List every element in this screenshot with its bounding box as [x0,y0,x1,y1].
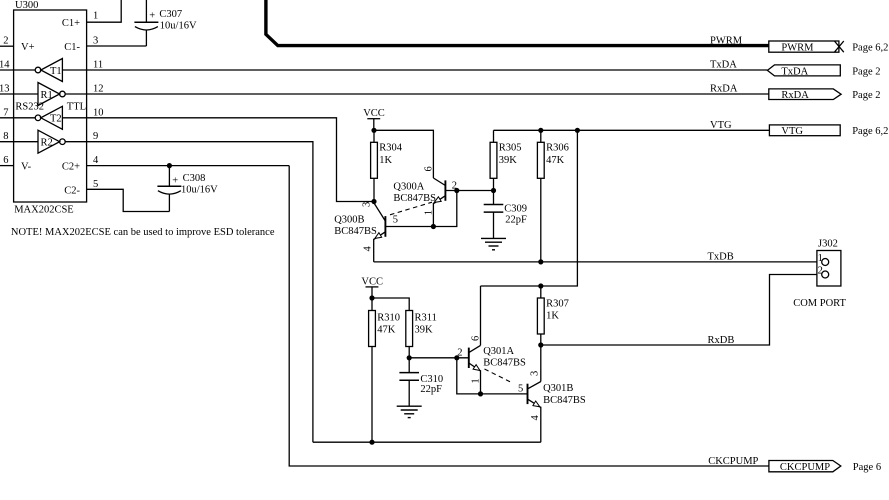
svg-text:10: 10 [93,107,104,118]
svg-text:C1+: C1+ [62,18,80,29]
ground C310 [397,406,422,417]
svg-text:7: 7 [3,107,8,118]
resistor R307 [537,286,544,345]
wire VCC2 to R311 [372,298,409,311]
power VCC symbol 2 [361,276,383,298]
svg-text:47K: 47K [377,325,396,336]
svg-text:PWRM: PWRM [781,42,814,53]
svg-text:VTG: VTG [710,120,732,131]
wire pin2 V+ [0,45,14,47]
offpage connector PWRM [769,41,844,53]
wire pin1 C1+ [87,0,122,22]
svg-text:Page 2: Page 2 [852,67,880,78]
svg-text:11: 11 [93,60,103,71]
svg-text:Q300A: Q300A [393,182,424,193]
svg-text:T1: T1 [50,66,62,77]
svg-text:4: 4 [530,415,541,421]
wire pin9 R2 out [65,142,313,443]
svg-text:Q301A: Q301A [483,346,514,357]
svg-text:1: 1 [424,210,435,215]
svg-text:R311: R311 [415,313,437,324]
svg-text:C2+: C2+ [62,162,80,173]
junction R306 top [538,128,543,133]
svg-text:2: 2 [3,36,8,47]
svg-text:R306: R306 [546,143,569,154]
svg-text:13: 13 [0,84,10,95]
wire pin5 C2- [87,189,170,211]
wire pin8 R2 in [0,141,38,143]
svg-text:1: 1 [93,11,98,22]
svg-text:MAX202CSE: MAX202CSE [14,205,74,216]
wire RxDB [541,275,822,346]
wire C2+ to CKCPUMP [289,166,769,466]
transistor Q301A [469,286,481,394]
svg-text:6: 6 [3,155,8,166]
svg-text:3: 3 [93,36,98,47]
svg-text:14: 14 [0,60,10,71]
svg-text:RxDA: RxDA [710,84,738,95]
capacitor C308 [157,166,181,212]
transistor Q301B [528,345,541,442]
junction base tap Q301A [454,355,459,360]
svg-text:6: 6 [471,336,482,341]
junction C308 top [167,163,172,168]
junction VCC2 rail [369,295,374,300]
svg-text:PWRM: PWRM [710,35,743,46]
svg-text:10u/16V: 10u/16V [181,185,218,196]
wire base tap down Q301 [457,358,527,394]
buffer R2 triangle [38,130,60,153]
wire VTG [494,129,770,131]
svg-text:39K: 39K [415,325,434,336]
junction R307 bottom RxDB [538,342,543,347]
svg-text:TxDB: TxDB [708,252,734,263]
wire Q300A base to R305 [446,190,494,192]
svg-text:22pF: 22pF [420,384,442,395]
resistor R306 [537,130,544,262]
svg-text:3: 3 [529,371,540,376]
svg-text:V-: V- [21,162,32,173]
svg-text:R310: R310 [377,313,400,324]
buffer R1 triangle [38,83,60,106]
svg-text:1: 1 [471,378,482,383]
svg-text:COM PORT: COM PORT [793,298,846,309]
IC U300 MAX202CSE body [14,10,87,202]
svg-text:3: 3 [361,202,372,207]
svg-text:6: 6 [424,166,435,171]
svg-text:BC847BS: BC847BS [334,226,377,237]
junction Q300A emitter [431,224,436,229]
transistor Q300B [374,203,386,262]
capacitor C307 [134,22,158,46]
wire pin10 to Q300B collector [62,118,374,202]
svg-text:VCC: VCC [361,276,383,287]
svg-text:1: 1 [818,253,823,264]
buffer T1 triangle [41,59,63,82]
pin 2 circle J302 [822,271,829,278]
svg-text:+: + [149,11,155,22]
svg-text:C2-: C2- [64,185,80,196]
svg-text:5: 5 [518,384,523,395]
svg-text:Page 6,2: Page 6,2 [852,42,888,53]
svg-text:9: 9 [93,131,98,142]
junction VCC1 rail [371,128,376,133]
junction R307 top [538,283,543,288]
svg-text:5: 5 [393,215,398,226]
offpage connector RxDA [769,89,841,101]
resistor R310 [369,298,376,442]
svg-text:47K: 47K [546,155,565,166]
wire C307 top lead [145,0,147,22]
svg-text:CKCPUMP: CKCPUMP [708,456,758,467]
svg-text:CKCPUMP: CKCPUMP [780,462,830,473]
svg-text:BC847BS: BC847BS [483,358,526,369]
svg-text:RxDB: RxDB [708,335,735,346]
power VCC symbol 1 [363,108,385,130]
offpage connector CKCPUMP [769,461,841,474]
dashed pair link Q301 [485,369,514,383]
svg-text:22pF: 22pF [505,215,527,226]
offpage connector VTG [769,125,840,137]
junction R305 C309 [491,188,496,193]
wire pin14 T1 in [0,69,35,71]
svg-text:5: 5 [93,179,98,190]
junction Q300B collector node [371,199,376,204]
buffer T2 triangle [41,106,63,129]
transistor Q300A [433,178,445,227]
wire TxDA [62,69,767,71]
buffer R2 bubble [60,139,66,145]
connector J302 body [817,251,841,287]
svg-text:1K: 1K [546,311,559,322]
svg-text:T2: T2 [50,114,62,125]
wire R311 to Q301A base [409,357,468,359]
svg-text:R1: R1 [41,90,53,101]
buffer T2 bubble [35,115,41,121]
svg-text:U300: U300 [15,0,38,11]
junction R311 bottom [407,355,412,360]
svg-text:BC847BS: BC847BS [543,395,586,406]
junction VTG tap [575,128,580,133]
buffer T1 bubble [35,67,41,73]
svg-text:10u/16V: 10u/16V [160,20,197,31]
wire TxDB [374,261,822,263]
svg-text:R305: R305 [499,143,522,154]
resistor R305 [490,130,497,190]
svg-text:+: + [172,175,178,186]
wire pin3 C1- [87,45,147,47]
svg-text:2: 2 [818,265,823,276]
svg-text:8: 8 [3,131,8,142]
wire pin7 T2 in [0,117,35,119]
svg-text:12: 12 [93,84,104,95]
junction R310 bottom [369,440,374,445]
svg-text:VCC: VCC [363,108,385,119]
svg-text:C309: C309 [504,203,527,214]
wire PWRM thick bus [266,0,769,46]
svg-text:Page 6,2: Page 6,2 [852,126,888,137]
svg-text:2: 2 [457,348,462,359]
svg-text:RxDA: RxDA [781,90,809,101]
svg-text:TxDA: TxDA [781,67,808,78]
svg-text:C308: C308 [183,173,206,184]
svg-text:R304: R304 [379,143,403,154]
svg-text:C307: C307 [159,9,182,20]
svg-text:V+: V+ [21,42,35,53]
offpage connector TxDA [767,65,840,78]
wire pin6 V- [0,165,14,167]
svg-text:1K: 1K [379,155,392,166]
svg-text:RS232: RS232 [15,101,44,112]
wire VTG down [481,130,578,286]
resistor R304 [371,130,378,201]
wire pin13 R1 in [0,93,38,95]
ground C309 [481,238,506,249]
pin 1 circle J302 [822,259,829,266]
wire VCC to Q300A collector [374,130,433,178]
wire pin4 C2+ [87,165,290,167]
svg-text:TTL: TTL [67,101,86,112]
svg-text:C1-: C1- [64,42,80,53]
wire pin9 net bottom [313,441,541,443]
svg-text:J302: J302 [818,239,838,250]
svg-text:Q300B: Q300B [334,215,364,226]
junction R306 bottom [538,259,543,264]
capacitor C309 [484,191,504,239]
svg-text:TxDA: TxDA [710,60,737,71]
junction Q301A emitter [478,391,483,396]
svg-text:Page 2: Page 2 [852,90,880,101]
capacitor C310 [399,358,419,406]
svg-text:4: 4 [363,246,374,252]
dashed pair link Q300 [390,202,432,215]
wire RxDA [65,93,769,95]
svg-text:39K: 39K [499,155,518,166]
svg-text:R2: R2 [41,137,53,148]
svg-text:Page 6: Page 6 [853,462,881,473]
svg-text:R307: R307 [546,298,569,309]
wire base tap down [386,191,457,227]
svg-text:Q301B: Q301B [543,383,573,394]
svg-text:4: 4 [93,155,99,166]
resistor R311 [406,311,413,358]
svg-text:VTG: VTG [781,126,803,137]
svg-text:NOTE! MAX202ECSE can be used t: NOTE! MAX202ECSE can be used to improve … [11,227,275,238]
buffer R1 bubble [60,91,66,97]
junction base tap [454,188,459,193]
